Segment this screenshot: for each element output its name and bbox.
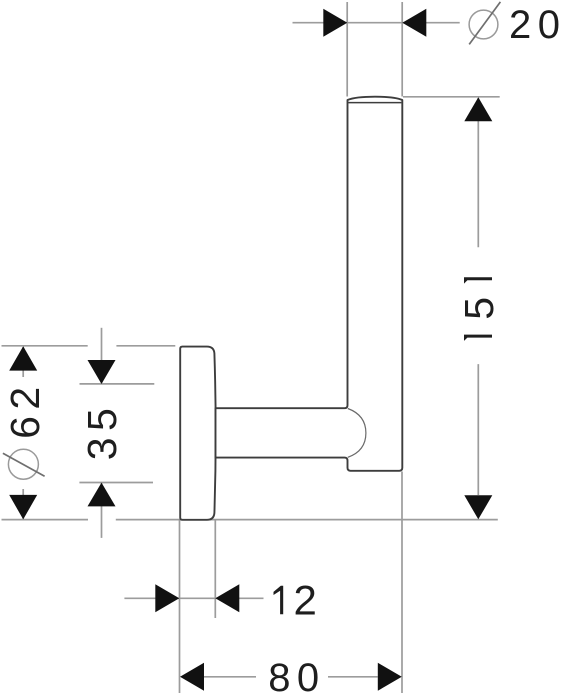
- svg-text:5: 5: [456, 297, 502, 320]
- svg-text:20: 20: [509, 3, 561, 47]
- svg-text:80: 80: [268, 656, 326, 700]
- svg-text:62: 62: [2, 380, 48, 439]
- svg-text:2: 2: [294, 576, 317, 623]
- svg-text:35: 35: [79, 402, 125, 461]
